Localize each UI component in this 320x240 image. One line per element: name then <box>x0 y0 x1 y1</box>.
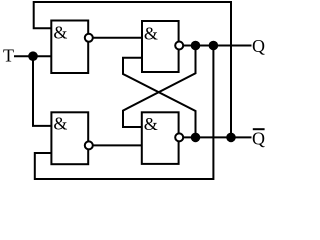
junction dot Q to cross-couple <box>191 41 201 51</box>
overline of Q-bar <box>253 128 265 130</box>
wire U3 output to U4 bottom input <box>88 144 142 146</box>
svg-text:T: T <box>3 46 14 66</box>
wire U1 output to U2 top input <box>88 37 142 39</box>
nand gate U4 (bottom-right) body <box>142 112 179 164</box>
nand gate U2 (top-right) body <box>142 21 179 72</box>
wire cross-couple Q-bar to U2 bottom input <box>123 58 196 138</box>
junction dot on T input <box>28 51 38 61</box>
svg-text:&: & <box>144 24 158 44</box>
junction dot Q to bottom feedback <box>209 41 219 51</box>
inversion bubble U4 output <box>175 133 183 141</box>
svg-text:Q: Q <box>252 128 265 148</box>
inversion bubble U2 output <box>175 42 183 50</box>
wire cross-couple Q to U4 top input <box>123 46 196 128</box>
svg-text:&: & <box>53 23 67 43</box>
nand gate U1 (top-left) body <box>51 21 88 74</box>
wire T input to U1 <box>14 55 51 57</box>
svg-text:Q: Q <box>252 36 265 56</box>
svg-text:&: & <box>53 114 67 134</box>
junction dot Q-bar to top feedback <box>226 133 236 143</box>
nand gate U3 (bottom-left) body <box>51 112 88 164</box>
wire feedback from Q-bar line up over the top to U1 top input <box>34 2 231 137</box>
junction dot Q-bar to cross-couple <box>191 133 201 143</box>
wire Q feedback down and along bottom to U3 bottom input <box>35 46 214 180</box>
wire Q output line <box>179 45 252 47</box>
wire T branch down to U3 top input <box>33 56 51 126</box>
svg-text:&: & <box>144 114 158 134</box>
inversion bubble U3 output <box>85 141 93 149</box>
wire Q-bar output line <box>179 136 252 138</box>
inversion bubble U1 output <box>85 34 93 42</box>
